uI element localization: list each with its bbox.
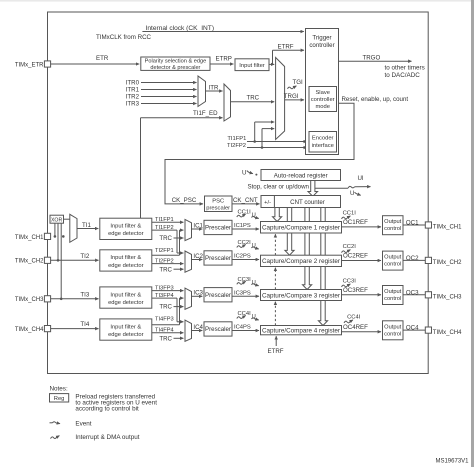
svg-text:interface: interface	[312, 143, 334, 149]
svg-text:IC3: IC3	[193, 290, 203, 297]
node TI2FP2 junction	[261, 146, 264, 149]
wire slave mode control path to prescaler CK_PSC	[165, 103, 354, 204]
svg-text:TI4FP3: TI4FP3	[155, 317, 174, 323]
wire preload transfer dashed reg1-reg2	[274, 235, 276, 256]
svg-text:control: control	[384, 296, 401, 302]
wire U event line right	[315, 187, 348, 189]
svg-text:mode: mode	[315, 104, 330, 110]
mux IC2 selector	[185, 251, 192, 272]
svg-text:TI1F_ED: TI1F_ED	[193, 110, 218, 117]
wire OC3REF	[342, 294, 382, 296]
wire TI4FP3 to elbow up	[152, 324, 180, 326]
block PSC prescaler	[205, 196, 233, 212]
svg-text:TRC: TRC	[159, 304, 172, 311]
wire preload transfer dashed reg3-reg4	[274, 302, 276, 325]
svg-text:ITR2: ITR2	[126, 94, 140, 101]
wire TI1FP2 to elbow down	[152, 229, 177, 231]
block input filter and edge detector channel 4	[100, 319, 152, 340]
svg-text:UI: UI	[358, 175, 364, 182]
block prescaler channel 4	[204, 322, 232, 336]
svg-text:detector & prescaler: detector & prescaler	[150, 65, 200, 71]
svg-text:CK_PSC: CK_PSC	[172, 197, 197, 204]
svg-text:Input filter &: Input filter &	[110, 324, 141, 330]
svg-text:TRC: TRC	[159, 335, 172, 342]
outer boundary box of TIMx	[48, 12, 429, 374]
wire ETRF to trigger controller	[269, 63, 273, 65]
svg-text:ITR3: ITR3	[126, 101, 140, 108]
wire TI3	[51, 298, 99, 300]
svg-text:TI2FP2: TI2FP2	[227, 143, 246, 149]
svg-text:IC4PS: IC4PS	[234, 325, 251, 331]
svg-text:control: control	[384, 262, 401, 268]
svg-text:TGI: TGI	[293, 79, 304, 86]
event UI interrupt	[348, 186, 355, 188]
wire OC2REF	[342, 260, 382, 262]
svg-text:Internal clock (CK_INT): Internal clock (CK_INT)	[146, 25, 215, 32]
wire XOR input from CH2	[57, 223, 59, 260]
block output control channel 3	[383, 286, 404, 305]
wire TRC to TRGI mux	[231, 101, 275, 103]
block output control channel 1	[383, 216, 404, 235]
svg-text:to DAC/ADC: to DAC/ADC	[385, 72, 421, 79]
svg-text:edge detector: edge detector	[108, 231, 144, 237]
wire OC2	[403, 259, 425, 261]
wire TI4	[51, 328, 99, 330]
svg-text:Input filter &: Input filter &	[110, 255, 141, 261]
svg-text:TRC: TRC	[247, 94, 260, 101]
svg-text:XOR: XOR	[51, 218, 62, 224]
wire OC3	[403, 294, 425, 296]
svg-text:IC2PS: IC2PS	[234, 254, 251, 260]
svg-text:Output: Output	[384, 219, 401, 225]
block auto-reload register	[261, 170, 341, 181]
svg-text:Trigger: Trigger	[312, 35, 331, 42]
wire TI3FP4 cross down rows 3-4	[176, 298, 178, 322]
svg-text:control: control	[384, 226, 401, 232]
svg-text:TIMx_CH4: TIMx_CH4	[15, 327, 44, 333]
svg-text:ETRF: ETRF	[278, 44, 294, 51]
wire OC1	[403, 224, 425, 226]
svg-text:Prescaler: Prescaler	[205, 255, 231, 262]
block CNT counter	[261, 196, 341, 208]
mux ITR selector	[198, 76, 206, 107]
svg-text:Input filter &: Input filter &	[110, 224, 141, 230]
svg-text:controller: controller	[309, 42, 334, 49]
block input filter and edge detector channel 2	[100, 250, 152, 271]
svg-text:to other timers: to other timers	[385, 65, 425, 72]
wire cross input into mux 1	[180, 229, 184, 231]
svg-text:according to control bit: according to control bit	[75, 405, 139, 412]
pad TIMx_CH1 left	[44, 233, 50, 239]
node CH1 junction under XOR	[62, 235, 65, 238]
page right scrollbar strip	[471, 0, 474, 467]
wire OC4REF	[342, 331, 382, 333]
block XOR	[50, 215, 64, 223]
svg-text:ITR1: ITR1	[126, 87, 140, 94]
block output control channel 4	[383, 321, 404, 340]
wire cross input into mux 3	[180, 297, 184, 299]
mux TRGI selector	[276, 58, 285, 140]
wire XOR output	[64, 218, 70, 220]
svg-text:Input filter &: Input filter &	[110, 292, 141, 298]
wire XOR input from CH1	[54, 223, 56, 236]
pad TIMx_CH4 right	[425, 327, 431, 333]
wire TRC channel 4	[174, 337, 184, 339]
wire ETR	[51, 63, 140, 65]
wire internal clock to trigger controller	[142, 31, 303, 33]
wire preload transfer dashed reg2-reg3	[274, 268, 276, 289]
wire TRGI	[285, 99, 304, 101]
wire OC1REF	[342, 226, 382, 228]
wire ETRP	[210, 63, 233, 65]
node TI1FP1 junction	[253, 140, 256, 143]
wire TI2FP1 cross up rows 1-2	[179, 230, 181, 255]
wire TI1FP1	[152, 221, 184, 223]
wire TI2FP2 to encoder	[247, 147, 307, 149]
block input filter and edge detector channel 1	[100, 218, 152, 239]
svg-text:MS19673V1: MS19673V1	[435, 459, 469, 465]
svg-text:TI1FP1: TI1FP1	[227, 136, 246, 142]
wire TRC channel 1	[174, 237, 184, 239]
svg-text:Interrupt & DMA output: Interrupt & DMA output	[75, 434, 139, 441]
svg-text:controller: controller	[311, 97, 335, 103]
wire TI2FP2 to TRGI mux	[261, 129, 263, 148]
block polarity selection and edge detector and prescaler	[141, 57, 210, 70]
svg-text:CK_CNT: CK_CNT	[233, 197, 258, 204]
block slave controller mode	[309, 87, 337, 112]
wire TI1	[77, 228, 98, 230]
svg-text:TIMx_CH2: TIMx_CH2	[433, 260, 462, 266]
svg-text:U: U	[242, 169, 246, 176]
svg-text:prescaler: prescaler	[206, 206, 230, 212]
svg-text:edge detector: edge detector	[108, 332, 144, 338]
svg-text:Reg: Reg	[54, 396, 65, 402]
svg-text:IC1: IC1	[193, 222, 203, 229]
svg-text:ITR: ITR	[209, 84, 219, 91]
pad TIMx_CH3 left	[44, 296, 50, 302]
event U arrow	[355, 192, 361, 195]
svg-text:TIMx_CH1: TIMx_CH1	[15, 235, 44, 241]
block capture compare 2 register	[261, 255, 342, 266]
svg-text:TIMx_CH3: TIMx_CH3	[15, 297, 44, 303]
wire cross input into mux 2	[177, 252, 183, 254]
svg-text:edge detector: edge detector	[108, 263, 144, 269]
svg-text:IC1PS: IC1PS	[234, 223, 251, 229]
wire TI1F_ED	[140, 118, 142, 219]
block trigger controller U1	[306, 29, 339, 155]
svg-text:ITR0: ITR0	[126, 80, 140, 87]
wire ITR to TRC mux	[206, 90, 223, 92]
wire counter to capture compare 4 (hollow arrow)	[318, 208, 327, 326]
wire IC2	[192, 259, 203, 261]
wire ITR0	[141, 82, 197, 84]
block prescaler channel 3	[204, 288, 232, 302]
legend interrupt symbol	[51, 436, 60, 439]
wire TI1FP2 cross down rows 1-2	[176, 230, 178, 253]
wire CK_CNT	[232, 203, 260, 205]
block Reg legend box	[50, 394, 69, 402]
svg-text:OC1REF: OC1REF	[343, 219, 368, 226]
pad TIMx_CH2 left	[44, 257, 50, 263]
svg-text:TRGO: TRGO	[363, 54, 381, 61]
svg-text:Capture/Compare 2 register: Capture/Compare 2 register	[262, 258, 340, 265]
wire TI3FP3	[152, 290, 184, 292]
wire ETRF to TRGI mux	[273, 63, 275, 65]
wire IC4	[192, 330, 203, 332]
svg-text:OC4REF: OC4REF	[343, 324, 368, 331]
wire TI2FP2	[152, 263, 184, 265]
svg-text:PSC: PSC	[212, 199, 224, 205]
svg-text:TIMx_ETR: TIMx_ETR	[15, 62, 44, 68]
svg-text:CC2I: CC2I	[343, 244, 357, 250]
page top edge	[0, 0, 474, 2]
svg-text:U: U	[350, 190, 354, 197]
wire IC1	[192, 228, 203, 230]
block input filter and edge detector channel 3	[100, 287, 152, 308]
svg-text:Output: Output	[384, 289, 401, 295]
block capture compare 3 register	[261, 290, 342, 301]
mux TRC selector	[224, 84, 231, 121]
svg-text:TI3: TI3	[80, 291, 89, 298]
wire TI1FP1 to encoder	[247, 141, 307, 143]
svg-text:OC2REF: OC2REF	[343, 253, 368, 260]
svg-text:IC3PS: IC3PS	[234, 290, 251, 296]
svg-text:Output: Output	[384, 255, 401, 261]
pad TIMx_CH2 right	[425, 257, 431, 263]
svg-text:ETRF: ETRF	[268, 348, 284, 355]
wire ITR2	[141, 96, 197, 98]
svg-text:Output: Output	[384, 324, 401, 330]
wire XOR input from CH3	[60, 223, 62, 299]
wire OC4	[403, 329, 425, 331]
wire TI4FP3 cross up rows 3-4	[179, 298, 181, 325]
svg-text:TRC: TRC	[159, 235, 172, 242]
svg-text:Reset, enable, up, count: Reset, enable, up, count	[342, 96, 409, 103]
block prescaler channel 2	[204, 251, 232, 265]
pad TIMx_CH3 right	[425, 292, 431, 298]
svg-text:Slave: Slave	[315, 90, 330, 96]
pad TIMx_CH1 right	[425, 222, 431, 228]
svg-text:TI4: TI4	[80, 321, 89, 328]
svg-text:Auto-reload register: Auto-reload register	[274, 173, 328, 180]
svg-text:Notes:: Notes:	[50, 385, 68, 392]
svg-text:Prescaler: Prescaler	[205, 225, 231, 232]
svg-text:OC3REF: OC3REF	[343, 287, 368, 294]
svg-text:ETRP: ETRP	[216, 55, 232, 62]
mux IC4 selector	[185, 320, 192, 341]
block capture compare 4 register	[261, 326, 342, 335]
block output control channel 2	[383, 251, 404, 270]
pad TIMx_ETR	[44, 61, 50, 67]
svg-text:ETR: ETR	[96, 55, 109, 62]
wire TI4FP4	[152, 332, 184, 334]
svg-text:Prescaler: Prescaler	[205, 292, 231, 299]
block capture compare 1 register	[261, 222, 342, 234]
svg-text:TI1: TI1	[82, 222, 91, 229]
svg-text:TIMxCLK from RCC: TIMxCLK from RCC	[96, 34, 152, 41]
svg-text:CC1I: CC1I	[343, 211, 357, 217]
wire ITR3	[141, 103, 197, 105]
svg-text:TI2: TI2	[80, 253, 89, 260]
svg-text:TRGI: TRGI	[284, 93, 299, 100]
svg-text:TRC: TRC	[159, 266, 172, 273]
wire TI2FP1 to elbow up	[152, 254, 180, 256]
wire ETRF bottom to capture compare 4	[275, 336, 277, 346]
svg-text:Polarity selection & edge: Polarity selection & edge	[145, 59, 207, 65]
block input filter ETR	[235, 59, 269, 71]
wire preload transfer ARR to counter (hollow arrow)	[308, 181, 318, 197]
wire counter to capture compare 1 (hollow arrow)	[273, 208, 282, 222]
svg-text:IC4: IC4	[193, 324, 203, 331]
svg-text:Capture/Compare 4 register: Capture/Compare 4 register	[262, 327, 340, 334]
block prescaler channel 1	[204, 220, 232, 234]
svg-text:TIMx_CH3: TIMx_CH3	[433, 295, 462, 301]
svg-text:Prescaler: Prescaler	[205, 326, 231, 333]
wire IC3	[192, 295, 203, 297]
event TGI interrupt	[288, 86, 297, 89]
block encoder interface	[309, 132, 337, 153]
svg-text:TI2FP1: TI2FP1	[155, 248, 174, 254]
mux TI1 selector	[70, 214, 77, 242]
svg-text:IC2: IC2	[193, 253, 203, 260]
svg-text:Stop, clear or up/down: Stop, clear or up/down	[248, 184, 310, 191]
pad TIMx_CH4 left	[44, 326, 50, 332]
wire TI2	[51, 259, 99, 261]
wire counter to capture compare 2 (hollow arrow)	[285, 208, 294, 256]
svg-text:Encoder: Encoder	[312, 136, 334, 142]
legend event symbol	[50, 422, 53, 424]
wire TI3FP4 to elbow down	[152, 297, 177, 299]
svg-text:CC3I: CC3I	[343, 279, 357, 285]
svg-text:edge detector: edge detector	[108, 300, 144, 306]
wire TRGO	[339, 60, 412, 62]
svg-text:Event: Event	[75, 420, 91, 427]
wire TI1FP1 to TRGI mux	[254, 122, 256, 142]
wire TRC channel 2	[174, 268, 184, 270]
svg-text:CNT counter: CNT counter	[290, 199, 325, 206]
svg-text:Capture/Compare 1 register: Capture/Compare 1 register	[262, 225, 340, 232]
svg-text:Capture/Compare 3 register: Capture/Compare 3 register	[262, 292, 340, 299]
wire cross input into mux 4	[177, 321, 183, 323]
mux IC3 selector	[185, 288, 192, 309]
wire ITR1	[141, 89, 197, 91]
svg-text:CC4I: CC4I	[347, 315, 361, 321]
svg-text:TIMx_CH4: TIMx_CH4	[433, 330, 462, 336]
wire counter to capture compare 3 (hollow arrow)	[303, 208, 312, 290]
svg-text:+/-: +/-	[264, 200, 271, 206]
svg-text:TIMx_CH2: TIMx_CH2	[15, 259, 44, 265]
svg-text:control: control	[384, 331, 401, 337]
svg-text:TIMx_CH1: TIMx_CH1	[433, 225, 462, 231]
svg-text:Input filter: Input filter	[239, 63, 265, 69]
wire TRC channel 3	[174, 306, 184, 308]
mux IC1 selector	[185, 219, 192, 240]
